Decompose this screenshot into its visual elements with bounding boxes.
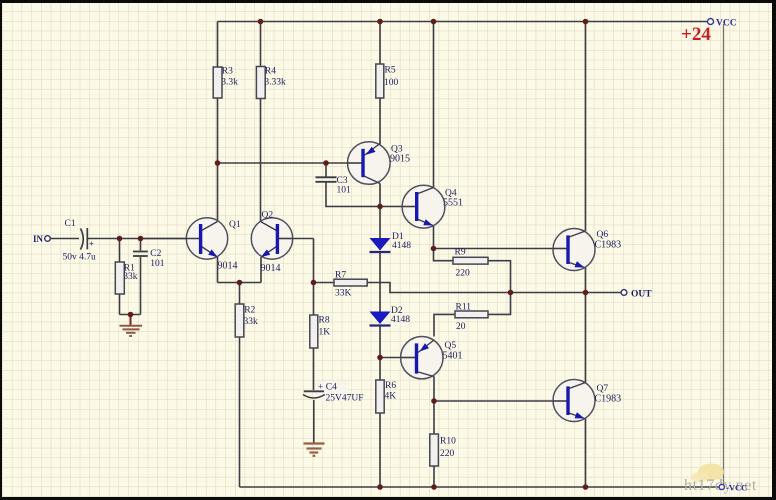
- node C3 top: [323, 160, 329, 166]
- node Q5 base: [377, 355, 383, 361]
- svg-text:-VCC: -VCC: [726, 483, 747, 493]
- wire R4 bottom to Q2 collector: [260, 99, 262, 222]
- wire C2 column top: [140, 239, 142, 251]
- terminal VCC top: [708, 19, 737, 29]
- svg-text:C2: C2: [150, 249, 161, 259]
- svg-text:VCC: VCC: [716, 19, 737, 29]
- svg-text:C3: C3: [337, 176, 348, 186]
- resistor R1: [115, 262, 138, 294]
- svg-text:R3: R3: [222, 67, 233, 77]
- watermark smudge: [698, 464, 724, 481]
- wire R5 bottom to Q3 emitter: [379, 98, 381, 144]
- svg-text:R7: R7: [335, 271, 346, 281]
- transistor Q5: [401, 337, 463, 379]
- svg-text:101: 101: [337, 186, 352, 196]
- resistor R3: [213, 67, 238, 99]
- wire Q5 collector down: [433, 377, 435, 402]
- resistor R2: [235, 304, 258, 337]
- node rail R6: [377, 484, 383, 490]
- svg-text:Q1: Q1: [229, 220, 241, 230]
- wire R2 bottom to rail: [239, 337, 241, 487]
- wire Q2 emitter down: [260, 257, 262, 283]
- resistor R11: [455, 303, 488, 333]
- transistor Q3: [347, 142, 410, 185]
- svg-text:9015: 9015: [390, 154, 410, 165]
- svg-text:1K: 1K: [319, 328, 331, 338]
- wire Q3 base row: [218, 162, 362, 164]
- svg-text:C1983: C1983: [595, 240, 622, 251]
- wire D2 to Q5 base node: [379, 327, 381, 358]
- wire R2 column top: [239, 283, 241, 305]
- wire R6 bottom to rail: [379, 413, 381, 487]
- svg-text:25V47UF: 25V47UF: [326, 394, 364, 404]
- wire emitter row Q1 Q2: [218, 282, 262, 284]
- svg-text:Q5: Q5: [445, 341, 457, 351]
- sheet edge line right: [723, 24, 725, 487]
- wire D1 to D2: [379, 253, 381, 312]
- svg-text:+24: +24: [681, 24, 711, 45]
- wire Q2 base column to R8: [313, 239, 315, 316]
- wire R11 left to Q5 emitter: [434, 314, 455, 336]
- wire R1 column top: [119, 239, 121, 263]
- svg-text:+: +: [89, 239, 94, 249]
- wire Q6 collector to rail: [585, 22, 587, 232]
- wire R4 column top: [260, 22, 262, 67]
- ground C4: [304, 444, 325, 456]
- svg-text:33k: 33k: [123, 272, 138, 282]
- svg-text:220: 220: [440, 449, 455, 459]
- svg-text:100: 100: [384, 78, 399, 88]
- terminal VCC bottom: [719, 483, 747, 493]
- node C2 top: [138, 236, 144, 242]
- svg-text:Q6: Q6: [597, 230, 609, 240]
- resistor R8: [310, 315, 330, 348]
- wire Q2 base: [278, 238, 314, 240]
- transistor Q4: [402, 185, 463, 228]
- diode D1: [370, 232, 412, 252]
- svg-text:220: 220: [456, 269, 471, 279]
- resistor R5: [376, 64, 399, 98]
- svg-text:33K: 33K: [335, 289, 352, 299]
- svg-text:33k: 33k: [244, 317, 259, 327]
- node rail R5: [377, 19, 383, 25]
- wire R9 right to OUT node: [488, 261, 511, 293]
- svg-text:R11: R11: [456, 303, 472, 313]
- svg-text:C1: C1: [65, 219, 76, 229]
- svg-text:Q7: Q7: [597, 384, 609, 394]
- node ground row: [128, 312, 134, 318]
- node Q1 collector tap: [215, 160, 221, 166]
- node Q5 collector R10: [431, 398, 437, 404]
- wire R10 column top: [433, 401, 435, 434]
- svg-text:R10: R10: [440, 437, 456, 447]
- wire R5 column top: [379, 22, 381, 65]
- node R1 top: [117, 236, 123, 242]
- wire R8 bottom to C4: [313, 348, 315, 390]
- wire R9 left branch: [434, 249, 454, 261]
- node R9 R11 out: [508, 290, 514, 296]
- node rail R10: [431, 484, 437, 490]
- capacitor C2: [133, 249, 165, 269]
- wire Q4 emitter node down: [433, 226, 435, 249]
- terminal OUT: [621, 290, 652, 300]
- node Q4 emitter: [431, 246, 437, 252]
- wire Q6 emitter to OUT node: [585, 268, 587, 293]
- svg-text:3.33k: 3.33k: [264, 78, 286, 88]
- svg-text:+ C4: + C4: [318, 383, 337, 393]
- wire R10 bottom to rail: [433, 466, 435, 487]
- resistor R4: [256, 67, 286, 99]
- svg-text:9014: 9014: [261, 263, 281, 274]
- svg-text:3.3k: 3.3k: [221, 78, 238, 88]
- transistor Q1: [141, 218, 241, 272]
- svg-text:R4: R4: [265, 67, 276, 77]
- wire Q7 emitter to rail: [585, 419, 587, 488]
- transistor Q6: [553, 229, 621, 271]
- wire VCC top rail: [218, 21, 708, 23]
- node rail R4: [258, 19, 264, 25]
- svg-text:50v 4.7u: 50v 4.7u: [63, 253, 97, 263]
- resistor R10: [430, 434, 456, 466]
- capacitor C1: [63, 219, 97, 263]
- wire OUT node to Q7 collector: [585, 293, 587, 383]
- wire Q5 base row: [380, 357, 415, 359]
- svg-text:4K: 4K: [385, 392, 397, 402]
- svg-text:R5: R5: [385, 66, 396, 76]
- node emitter row: [237, 280, 243, 286]
- svg-text:R2: R2: [244, 306, 255, 316]
- wire R1 bottom: [119, 294, 121, 315]
- capacitor C4: [303, 381, 364, 404]
- transistor Q2: [251, 211, 293, 275]
- node rail Q7: [583, 484, 589, 490]
- svg-text:5551: 5551: [443, 198, 463, 209]
- transistor Q7: [553, 380, 621, 422]
- svg-text:Q2: Q2: [262, 211, 274, 221]
- wire C3 bottom to Q4 base row: [326, 183, 416, 207]
- wire Q5 node to R6: [379, 358, 381, 381]
- border frame: [0, 0, 776, 3]
- svg-text:R6: R6: [385, 381, 396, 391]
- wire Q3 collector to D1: [379, 184, 381, 239]
- resistor R6: [376, 380, 397, 413]
- resistor R7: [334, 271, 367, 299]
- node Q4 base: [377, 204, 383, 210]
- svg-text:9014: 9014: [218, 261, 238, 272]
- node rail Q4: [431, 19, 437, 25]
- svg-text:R9: R9: [455, 248, 466, 258]
- svg-text:OUT: OUT: [631, 290, 652, 300]
- wire R3 column top: [217, 22, 219, 68]
- svg-text:C1983: C1983: [595, 394, 622, 405]
- resistor R9: [453, 248, 488, 279]
- capacitor C3: [316, 176, 352, 196]
- wire C2 bottom: [140, 257, 142, 315]
- svg-text:R8: R8: [319, 316, 330, 326]
- ground input stage: [120, 315, 143, 337]
- wire Q4 collector to rail: [433, 22, 435, 188]
- wire Q6 base row: [434, 248, 567, 250]
- wire Q1 emitter down: [217, 257, 219, 283]
- svg-text:5401: 5401: [443, 351, 463, 362]
- terminal IN: [33, 234, 50, 244]
- node rail Q6: [583, 19, 589, 25]
- svg-text:20: 20: [456, 322, 466, 332]
- wire bottom rail: [240, 486, 720, 488]
- wire Q7 base row: [434, 400, 567, 402]
- wire R1 C2 ground row: [120, 314, 141, 316]
- wire R3 bottom to Q1 collector: [217, 98, 219, 222]
- wire R7 left: [314, 282, 335, 284]
- node R7 R8: [311, 280, 317, 286]
- wire R7 right jog to OUT row: [367, 283, 621, 293]
- diode D2: [370, 306, 411, 326]
- wire C3 stub top: [325, 163, 327, 177]
- svg-text:IN: IN: [33, 234, 44, 244]
- wire R11 right to OUT node: [488, 293, 511, 315]
- wire C4 to ground: [313, 400, 315, 443]
- svg-text:4148: 4148: [391, 315, 410, 325]
- wire C1 to Q1 base: [88, 238, 199, 240]
- svg-text:4148: 4148: [392, 241, 411, 251]
- svg-text:101: 101: [150, 259, 165, 269]
- wire IN to C1: [51, 238, 80, 240]
- node OUT Q6 Q7: [583, 290, 589, 296]
